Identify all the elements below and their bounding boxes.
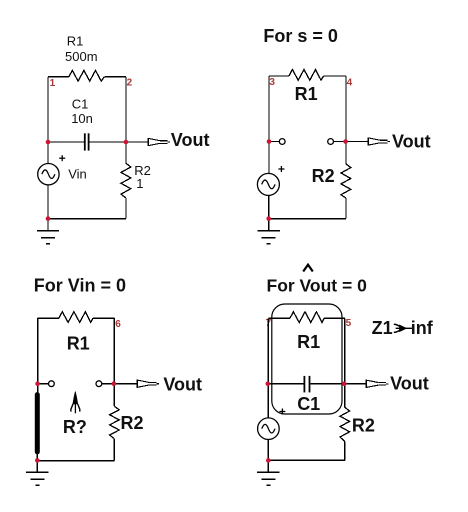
wire left rail upper (panel2)	[268, 76, 270, 173]
ground (panel2)	[258, 230, 280, 245]
wire R1 to right rail	[104, 76, 126, 78]
wire cap row right (panel4)	[310, 383, 366, 385]
arrow Z1 to inf	[394, 324, 412, 332]
wire bar to bottom (panel3)	[36, 452, 38, 461]
wire left rail upper	[47, 77, 49, 164]
svg-text:For Vin = 0: For Vin = 0	[34, 276, 126, 296]
svg-text:Z1: Z1	[372, 318, 393, 338]
wire cap row right to probe	[89, 141, 148, 143]
stub open terminal to right rail (panel3)	[102, 383, 115, 385]
svg-text:500m: 500m	[65, 49, 98, 64]
ground (panel3)	[26, 472, 48, 487]
wire bottom (panel1)	[48, 218, 126, 220]
wire left rail (panel3)	[37, 318, 39, 394]
wire bottom (panel4)	[268, 459, 345, 461]
wire left rail lower (panel4)	[267, 440, 269, 461]
svg-text:Vin: Vin	[68, 166, 87, 181]
wire right rail upper (panel3)	[113, 318, 115, 406]
arrow R?	[71, 392, 80, 414]
stub open terminal to right rail (panel2)	[334, 141, 347, 143]
wire right rail lower (panel4)	[344, 442, 346, 461]
output probe (panel2)	[368, 137, 390, 145]
junction dot ground node (panel3)	[35, 458, 40, 463]
output probe (panel3)	[137, 380, 159, 388]
svg-text:2: 2	[127, 78, 133, 89]
short-circuit bar (replaces Vin)	[35, 395, 40, 452]
svg-text:C1: C1	[72, 97, 89, 112]
plus sign Vin	[59, 155, 65, 161]
open terminal right (panel3)	[96, 381, 102, 387]
svg-text:3: 3	[269, 77, 275, 88]
wire top-right (panel4)	[324, 317, 345, 319]
wire right rail to probe (panel3)	[114, 383, 137, 385]
junction dot output node (panel2)	[343, 139, 348, 144]
junction dot C1-left node (panel4)	[266, 382, 271, 387]
svg-text:R1: R1	[295, 84, 318, 104]
voltage source Vin V1	[38, 164, 59, 185]
Z1 impedance frame (rounded box)	[272, 304, 342, 414]
junction dot C1-right output node (panel4)	[342, 382, 347, 387]
resistor R2 (panel3)	[110, 406, 120, 439]
resistor R1 (panel4)	[290, 312, 324, 323]
svg-text:inf: inf	[411, 318, 434, 338]
junction dot ground node (panel2)	[266, 216, 271, 221]
junction dot left open node (panel2)	[267, 139, 272, 144]
svg-text:Vout: Vout	[163, 375, 202, 395]
capacitor C1 (panel4)	[304, 376, 309, 393]
resistor R1 (panel2)	[289, 70, 324, 81]
wire cap row left (panel4)	[268, 383, 303, 385]
junction dot C1-left node (panel1)	[46, 140, 51, 145]
svg-text:5: 5	[346, 318, 352, 329]
svg-text:1: 1	[136, 176, 143, 191]
output probe (panel4)	[366, 380, 388, 388]
ground (panel4)	[257, 472, 279, 487]
wire bottom (panel2)	[269, 218, 346, 220]
svg-text:Vout: Vout	[390, 374, 429, 394]
svg-text:6: 6	[115, 319, 121, 330]
wire bottom (panel3)	[37, 460, 114, 462]
wire top-left (panel4)	[268, 317, 290, 319]
resistor R2 (panel4)	[340, 407, 350, 441]
voltage source V (panel2)	[257, 173, 279, 195]
wire left rail lower	[47, 185, 49, 219]
plus sign (panel4)	[279, 409, 285, 415]
wire top-left from left rail to R1	[48, 76, 69, 78]
wire right rail upper (panel4)	[344, 318, 346, 407]
svg-text:Vout: Vout	[392, 132, 431, 152]
wire left rail upper (panel4)	[267, 318, 269, 418]
svg-text:C1: C1	[297, 394, 320, 414]
stub to open terminal left (panel3)	[38, 383, 49, 385]
resistor R2 (panel1)	[121, 163, 131, 198]
wire right rail to probe (panel2)	[346, 141, 368, 143]
caret over Vout	[303, 265, 313, 272]
svg-text:Vout: Vout	[171, 130, 210, 150]
wire right rail lower	[125, 198, 127, 219]
stub to open terminal left (panel2)	[269, 141, 279, 143]
svg-text:R2: R2	[312, 166, 335, 186]
svg-text:R1: R1	[67, 33, 84, 48]
junction dot left open node (panel3)	[35, 381, 40, 386]
junction dot output node (panel3)	[112, 381, 117, 386]
svg-text:R1: R1	[67, 334, 90, 354]
wire top-left (panel3)	[38, 317, 59, 319]
svg-text:R2: R2	[352, 415, 375, 435]
svg-text:10n: 10n	[71, 111, 93, 126]
svg-text:R1: R1	[297, 332, 320, 352]
wire cap row left	[48, 141, 84, 143]
junction dot ground node (panel4)	[266, 458, 271, 463]
open terminal left (panel3)	[49, 381, 55, 387]
svg-text:For s = 0: For s = 0	[263, 26, 338, 46]
wire left rail lower (panel2)	[268, 195, 270, 218]
svg-text:4: 4	[347, 77, 353, 88]
wire right rail lower (panel2)	[345, 198, 347, 219]
capacitor C1	[85, 133, 89, 150]
output probe Vout (panel1)	[148, 138, 170, 146]
plus sign (panel2)	[278, 166, 284, 172]
wire right rail lower (panel3)	[113, 439, 115, 461]
wire right rail upper (panel2)	[345, 76, 347, 164]
svg-text:For Vout = 0: For Vout = 0	[267, 276, 368, 296]
open terminal left (panel2)	[279, 139, 285, 145]
resistor R2 (panel2)	[341, 164, 351, 198]
wire top-right (panel3)	[93, 317, 114, 319]
wire top-left (panel2)	[269, 75, 289, 77]
resistor R1	[69, 70, 105, 81]
wire top-right (panel2)	[324, 75, 346, 77]
wire right rail upper	[125, 77, 127, 163]
svg-text:1: 1	[50, 78, 56, 89]
ground (panel1)	[37, 230, 59, 245]
open terminal right (panel2)	[328, 139, 334, 145]
voltage source V (panel4)	[258, 418, 280, 440]
junction dot ground node (panel1)	[46, 216, 51, 221]
junction dot C1-right output node (panel1)	[124, 140, 129, 145]
resistor R1 (panel3)	[59, 312, 93, 323]
svg-text:R?: R?	[63, 417, 87, 437]
svg-text:R2: R2	[121, 413, 144, 433]
